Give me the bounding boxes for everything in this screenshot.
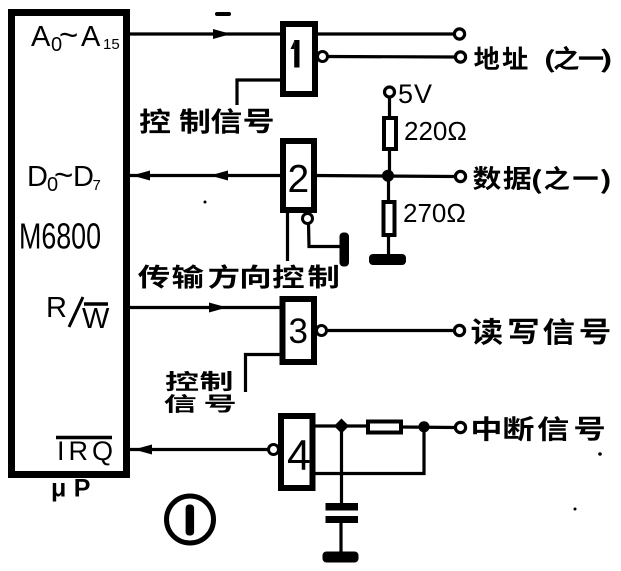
arrowhead right on R/W wire (209, 303, 227, 313)
wire resistor R3 to output node B (401, 425, 455, 429)
svg-text:4: 4 (287, 433, 311, 480)
wire R/W signal from CPU to buffer 3 (128, 306, 284, 309)
output bubble on buffer 3 (317, 326, 327, 336)
svg-text:M6800: M6800 (19, 216, 101, 257)
wire control signal into buffer 1 (237, 80, 283, 105)
svg-text:IRQ: IRQ (57, 436, 117, 466)
terminal circle address line 2 (455, 52, 465, 62)
label 控制信号 control signal (buffer 1) (140, 108, 273, 134)
wire IRQ signal from buffer 4 to CPU (128, 448, 270, 451)
wire data node to resistor 270 (387, 176, 390, 202)
svg-text:W: W (82, 303, 110, 335)
resistor R1 220 ohm pull-up (384, 118, 396, 149)
label 信号 signal (buffer 3) line 2 (164, 394, 234, 413)
buffer 4 (interrupt buffer) (281, 416, 313, 488)
label 地址(之一) address output (474, 46, 610, 73)
svg-text:μP: μP (51, 475, 98, 503)
pin label IRQ (active low, overline) (56, 436, 117, 466)
arrowhead left on data bus mid (210, 171, 228, 181)
wire RC node down to capacitor (340, 430, 343, 504)
figure number circled 1 (167, 496, 214, 543)
terminal circle data line (455, 171, 465, 181)
wire resistor 220 to data node (388, 149, 391, 176)
svg-text:2: 2 (288, 158, 310, 201)
svg-text:~: ~ (59, 16, 78, 53)
svg-text:D: D (27, 161, 48, 193)
wire buffer1 top output to address terminal (318, 32, 454, 35)
buffer 2 (data buffer) (283, 141, 314, 210)
power terminal 5V (385, 87, 395, 97)
speck marks from scan (204, 12, 602, 511)
svg-text:A: A (31, 21, 51, 53)
svg-text:~: ~ (54, 156, 73, 193)
arrowhead right on address bus (213, 29, 231, 39)
resistor R2 270 ohm pull-down (384, 202, 395, 235)
label 传输方向控制 transfer direction control (138, 264, 338, 289)
label 中断信号 interrupt signal (473, 416, 604, 441)
label 读写信号 read/write signal (472, 318, 610, 345)
ground symbol (data divider) (369, 254, 406, 265)
wire data bus D0-D7 from buffer 2 to CPU (128, 174, 283, 177)
label 控制 control (buffer 3) line 1 (166, 371, 232, 391)
wire capacitor to ground (339, 523, 342, 553)
wire buffer1 bubble output to address terminal 2 (328, 55, 456, 59)
input bubble on buffer 4 left (269, 445, 279, 455)
pin label R/W (write active low) (46, 292, 110, 335)
junction dot node B (418, 421, 429, 432)
enable bubble on buffer 2 bottom (303, 214, 313, 224)
svg-text:220Ω: 220Ω (404, 116, 467, 146)
pin label A0~A15 (31, 16, 120, 56)
output bubble on buffer 1 (318, 52, 328, 62)
wire 5V to resistor 220 (388, 97, 391, 118)
ground symbol (capacitor) (323, 552, 359, 563)
svg-text:5V: 5V (398, 79, 433, 109)
wire resistor 270 to ground (387, 235, 390, 256)
wire buffer2 enable to connector stub (309, 223, 342, 247)
wire buffer4 top output to RC node (313, 424, 339, 427)
svg-text:3: 3 (289, 312, 308, 351)
junction diamond RC node A (334, 419, 349, 434)
terminal circle interrupt (455, 422, 465, 432)
terminal circle read/write (454, 325, 464, 335)
buffer 1 (address buffer) (283, 24, 315, 94)
junction dot data node (382, 170, 394, 182)
arrowhead left on data bus near CPU (132, 171, 150, 181)
wire control signal into buffer 3 (246, 355, 284, 393)
terminal circle address line 1 (454, 29, 464, 39)
wire buffer3 output to read/write terminal (327, 329, 455, 332)
wire RC node to horizontal resistor (347, 424, 368, 427)
wire buffer2 output to data terminal (314, 176, 455, 177)
wire buffer2 direction control down (286, 213, 289, 261)
arrowhead left on IRQ wire (134, 445, 152, 455)
wire buffer4 bottom output feedback (313, 429, 425, 474)
label 数据(之一) data output (473, 166, 609, 194)
svg-text:7: 7 (93, 177, 101, 194)
capacitor C1 top plate (326, 503, 359, 511)
IC U1 M6800 microprocessor block (12, 13, 127, 475)
svg-text:15: 15 (103, 36, 120, 53)
label 1 (291, 40, 300, 68)
svg-text:R: R (46, 292, 67, 324)
resistor R3 (interrupt, horizontal) (368, 422, 401, 433)
svg-text:A: A (81, 21, 101, 53)
wire address bus A0-A15 from CPU to buffer 1 (128, 32, 283, 35)
capacitor C1 bottom plate (326, 516, 359, 523)
connector stub (thick bar) (340, 233, 350, 267)
buffer 3 (read/write buffer) (283, 299, 315, 362)
svg-text:270Ω: 270Ω (403, 198, 466, 228)
svg-text:D: D (73, 161, 94, 193)
pin label D0~D7 (27, 156, 101, 196)
